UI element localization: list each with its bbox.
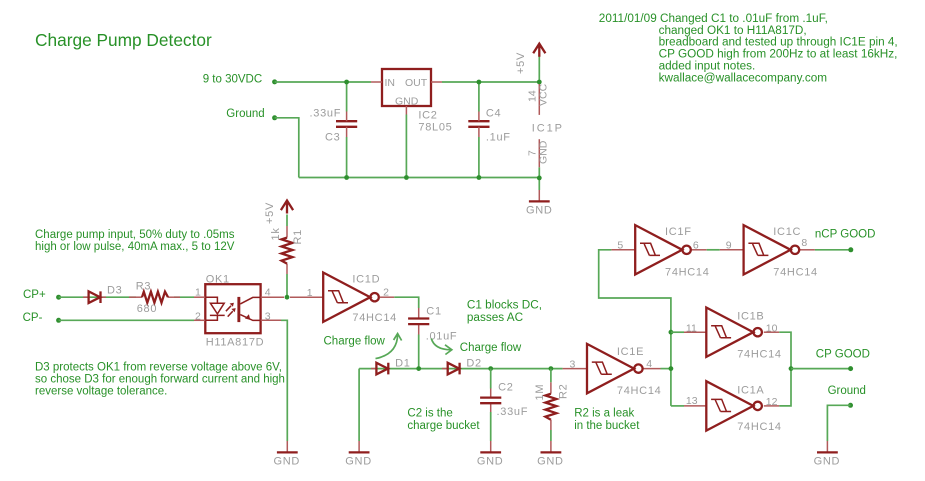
svg-text:C2: C2 (498, 382, 513, 394)
junction outputs (789, 366, 794, 371)
wire CP GOOD (791, 368, 851, 370)
capacitor C3 (336, 112, 357, 138)
wire D1 gnd drop (358, 369, 360, 441)
svg-text:8: 8 (801, 237, 807, 249)
svg-text:CP+: CP+ (23, 289, 46, 301)
ground symbol R2 (541, 441, 562, 452)
svg-text:Charge Pump Detector: Charge Pump Detector (35, 30, 212, 50)
wire IC1B input (671, 331, 684, 333)
ground symbol OK1 (277, 441, 298, 452)
svg-text:charge bucket: charge bucket (407, 420, 480, 432)
wire R1 to junction (286, 274, 288, 297)
wire ground input down (275, 118, 299, 178)
svg-text:CP-: CP- (23, 312, 43, 324)
wire CP- row (59, 319, 194, 321)
svg-text:6: 6 (693, 239, 699, 251)
svg-text:high or low pulse, 40mA max.,: high or low pulse, 40mA max., 5 to 12V (35, 241, 235, 253)
svg-text:H11A817D: H11A817D (206, 337, 265, 349)
svg-text:1M: 1M (534, 384, 546, 401)
diode D1 (371, 363, 388, 375)
junction R2 top (549, 366, 554, 371)
resistor R2 (545, 369, 556, 441)
svg-text:74HC14: 74HC14 (737, 421, 782, 433)
svg-text:3: 3 (570, 359, 576, 371)
svg-text:GND: GND (345, 456, 372, 468)
resistor R1 (282, 226, 293, 274)
regulator IC2 box (371, 69, 442, 115)
svg-text:1: 1 (307, 287, 313, 299)
svg-text:C3: C3 (325, 131, 340, 143)
junction IC1E out (669, 366, 674, 371)
junction IC2 gnd (404, 175, 409, 180)
svg-text:+5V: +5V (515, 52, 527, 74)
svg-text:R2: R2 (558, 384, 570, 399)
junction C4 top (477, 80, 482, 85)
wire C3 column (346, 82, 348, 112)
svg-text:C1: C1 (426, 306, 441, 318)
svg-text:GND: GND (477, 456, 504, 468)
ground symbol C2 (480, 441, 501, 452)
svg-text:.33uF: .33uF (497, 406, 529, 418)
junction VCC (537, 80, 542, 85)
svg-text:in the bucket: in the bucket (574, 420, 640, 432)
IC1P power pins (538, 84, 540, 167)
wire IC1E out (661, 368, 671, 370)
svg-text:2: 2 (195, 310, 201, 322)
svg-text:78L05: 78L05 (418, 122, 452, 134)
svg-text:Ground: Ground (828, 385, 866, 397)
svg-text:VCC: VCC (538, 83, 550, 106)
wire IC1P gnd pin to rail (538, 167, 540, 190)
optocoupler OK1 (194, 284, 284, 333)
svg-text:D1: D1 (395, 358, 410, 370)
svg-text:.1uF: .1uF (486, 131, 511, 143)
wire feedback up to IC1F (599, 250, 671, 406)
wire R3 to OK1 pin1 (174, 296, 194, 298)
junction C3 bottom (344, 175, 349, 180)
wire IC1F to IC1C (707, 249, 720, 251)
wire C1 to D1 D2 junction (418, 335, 420, 369)
wire C4 bottom (478, 137, 480, 178)
svg-text:74HC14: 74HC14 (352, 312, 397, 324)
ground symbol right (817, 441, 838, 452)
svg-text:5: 5 (617, 239, 623, 251)
svg-text:GND: GND (274, 456, 301, 468)
svg-text:+5V: +5V (264, 202, 276, 224)
capacitor C4 (468, 112, 489, 138)
svg-text:D3 protects OK1 from reverse v: D3 protects OK1 from reverse voltage abo… (35, 362, 282, 374)
svg-text:IC1E: IC1E (617, 346, 644, 358)
svg-text:C4: C4 (486, 107, 501, 119)
junction D2 C2 (488, 366, 493, 371)
resistor R3 (129, 292, 180, 303)
junction C3 top (344, 80, 349, 85)
wire +5V to R1 (286, 215, 288, 227)
inverter IC1E (563, 344, 661, 393)
inverter IC1B (684, 308, 779, 357)
wire 9to30VDC to IC2 IN (275, 81, 371, 83)
svg-text:so chose D3 for enough forward: so chose D3 for enough forward current a… (35, 374, 285, 386)
svg-text:IC2: IC2 (418, 109, 437, 121)
charge flow left arrow (376, 334, 402, 359)
svg-text:GND: GND (537, 456, 564, 468)
wire IC2 OUT to +5V rail (442, 81, 539, 83)
svg-text:GND: GND (526, 204, 553, 216)
svg-text:GND: GND (814, 456, 841, 468)
junction C4 bottom (477, 175, 482, 180)
svg-text:1: 1 (195, 287, 201, 299)
svg-text:kwallace@wallacecompany.com: kwallace@wallacecompany.com (659, 71, 828, 84)
wire C4 column (478, 82, 480, 112)
svg-text:OK1: OK1 (206, 273, 230, 285)
junction IC1P gnd (537, 176, 542, 181)
supply +5V top (533, 44, 545, 57)
svg-text:9 to 30VDC: 9 to 30VDC (203, 73, 262, 85)
wire IC1C out to nCP GOOD (815, 249, 851, 251)
svg-text:passes AC: passes AC (467, 311, 524, 324)
svg-text:11: 11 (686, 323, 697, 335)
svg-text:C2 is the: C2 is the (407, 408, 452, 420)
svg-text:CP GOOD: CP GOOD (816, 348, 870, 360)
svg-text:4: 4 (646, 358, 652, 370)
wire IC1B IC1A outputs join (779, 332, 791, 406)
inverter IC1F (611, 225, 706, 274)
wire bottom gnd rail (299, 177, 540, 179)
svg-text:74HC14: 74HC14 (773, 267, 818, 279)
svg-text:9: 9 (726, 239, 732, 251)
svg-text:2: 2 (383, 286, 389, 298)
svg-text:IC1A: IC1A (737, 384, 764, 396)
svg-text:IC1P: IC1P (532, 123, 564, 135)
node Ground terminal (272, 115, 277, 120)
svg-text:Charge flow: Charge flow (460, 342, 522, 354)
svg-text:74HC14: 74HC14 (665, 267, 710, 279)
svg-text:nCP GOOD: nCP GOOD (815, 229, 876, 241)
capacitor C2 (480, 369, 501, 441)
svg-text:Charge pump input, 50% duty to: Charge pump input, 50% duty to .05ms (35, 229, 235, 241)
node nCP GOOD terminal (848, 247, 853, 252)
charge flow right arrow (431, 339, 452, 355)
svg-text:IC1C: IC1C (773, 226, 801, 238)
diode D3 (83, 291, 106, 303)
wire +5V stem (538, 56, 540, 83)
wire IC1A input (671, 405, 684, 407)
svg-text:R1: R1 (292, 229, 304, 244)
svg-text:10: 10 (766, 323, 778, 335)
ground symbol top (529, 190, 550, 201)
svg-text:GND: GND (395, 96, 419, 108)
svg-text:12: 12 (766, 396, 778, 408)
wire C3 bottom (346, 137, 348, 178)
wire D1 row (359, 368, 562, 370)
svg-text:.33uF: .33uF (310, 107, 342, 119)
svg-text:reverse voltage tolerance.: reverse voltage tolerance. (35, 386, 167, 398)
svg-text:D2: D2 (466, 358, 481, 370)
svg-text:.01uF: .01uF (426, 331, 458, 343)
wire OK1 pin3 down to gnd (281, 320, 287, 441)
svg-text:IC1B: IC1B (737, 311, 764, 323)
diode D2 (442, 363, 460, 375)
svg-text:R3: R3 (136, 281, 151, 293)
svg-text:IC1D: IC1D (352, 274, 380, 286)
svg-text:74HC14: 74HC14 (617, 385, 662, 397)
svg-text:3: 3 (265, 310, 271, 322)
node CP- terminal (56, 318, 61, 323)
node CP GOOD terminal (848, 366, 853, 371)
svg-text:OUT: OUT (405, 77, 428, 89)
inverter IC1A (684, 381, 779, 430)
wire IC2 gnd column (405, 115, 407, 178)
ground symbol D1 (349, 441, 370, 452)
svg-text:4: 4 (265, 287, 271, 299)
node CP+ terminal (56, 295, 61, 300)
inverter IC1C (720, 225, 815, 274)
junction C1 D1 D2 (416, 366, 421, 371)
svg-text:R2 is a leak: R2 is a leak (574, 408, 634, 420)
svg-text:GND: GND (538, 140, 550, 164)
node 9to30VDC terminal (272, 79, 277, 84)
wire ground right (827, 405, 850, 441)
inverter IC1D (290, 273, 394, 322)
svg-text:1k: 1k (270, 227, 282, 240)
svg-text:Ground: Ground (226, 108, 264, 120)
node Ground right terminal (848, 403, 853, 408)
svg-text:IC1F: IC1F (665, 226, 692, 238)
svg-text:13: 13 (686, 395, 698, 407)
svg-text:IN: IN (385, 77, 396, 89)
svg-text:C1 blocks DC,: C1 blocks DC, (467, 299, 542, 312)
wire IC1D out to C1 (394, 297, 418, 308)
capacitor C1 (408, 308, 429, 335)
svg-text:680: 680 (137, 303, 157, 315)
supply +5V at R1 (281, 201, 293, 214)
svg-text:D3: D3 (107, 285, 122, 297)
svg-text:Charge flow: Charge flow (324, 336, 386, 348)
junction IC1B input (669, 330, 674, 335)
junction R1 OK1 IC1D (285, 295, 290, 300)
wire CP+ row (59, 296, 136, 298)
svg-text:74HC14: 74HC14 (737, 348, 782, 360)
